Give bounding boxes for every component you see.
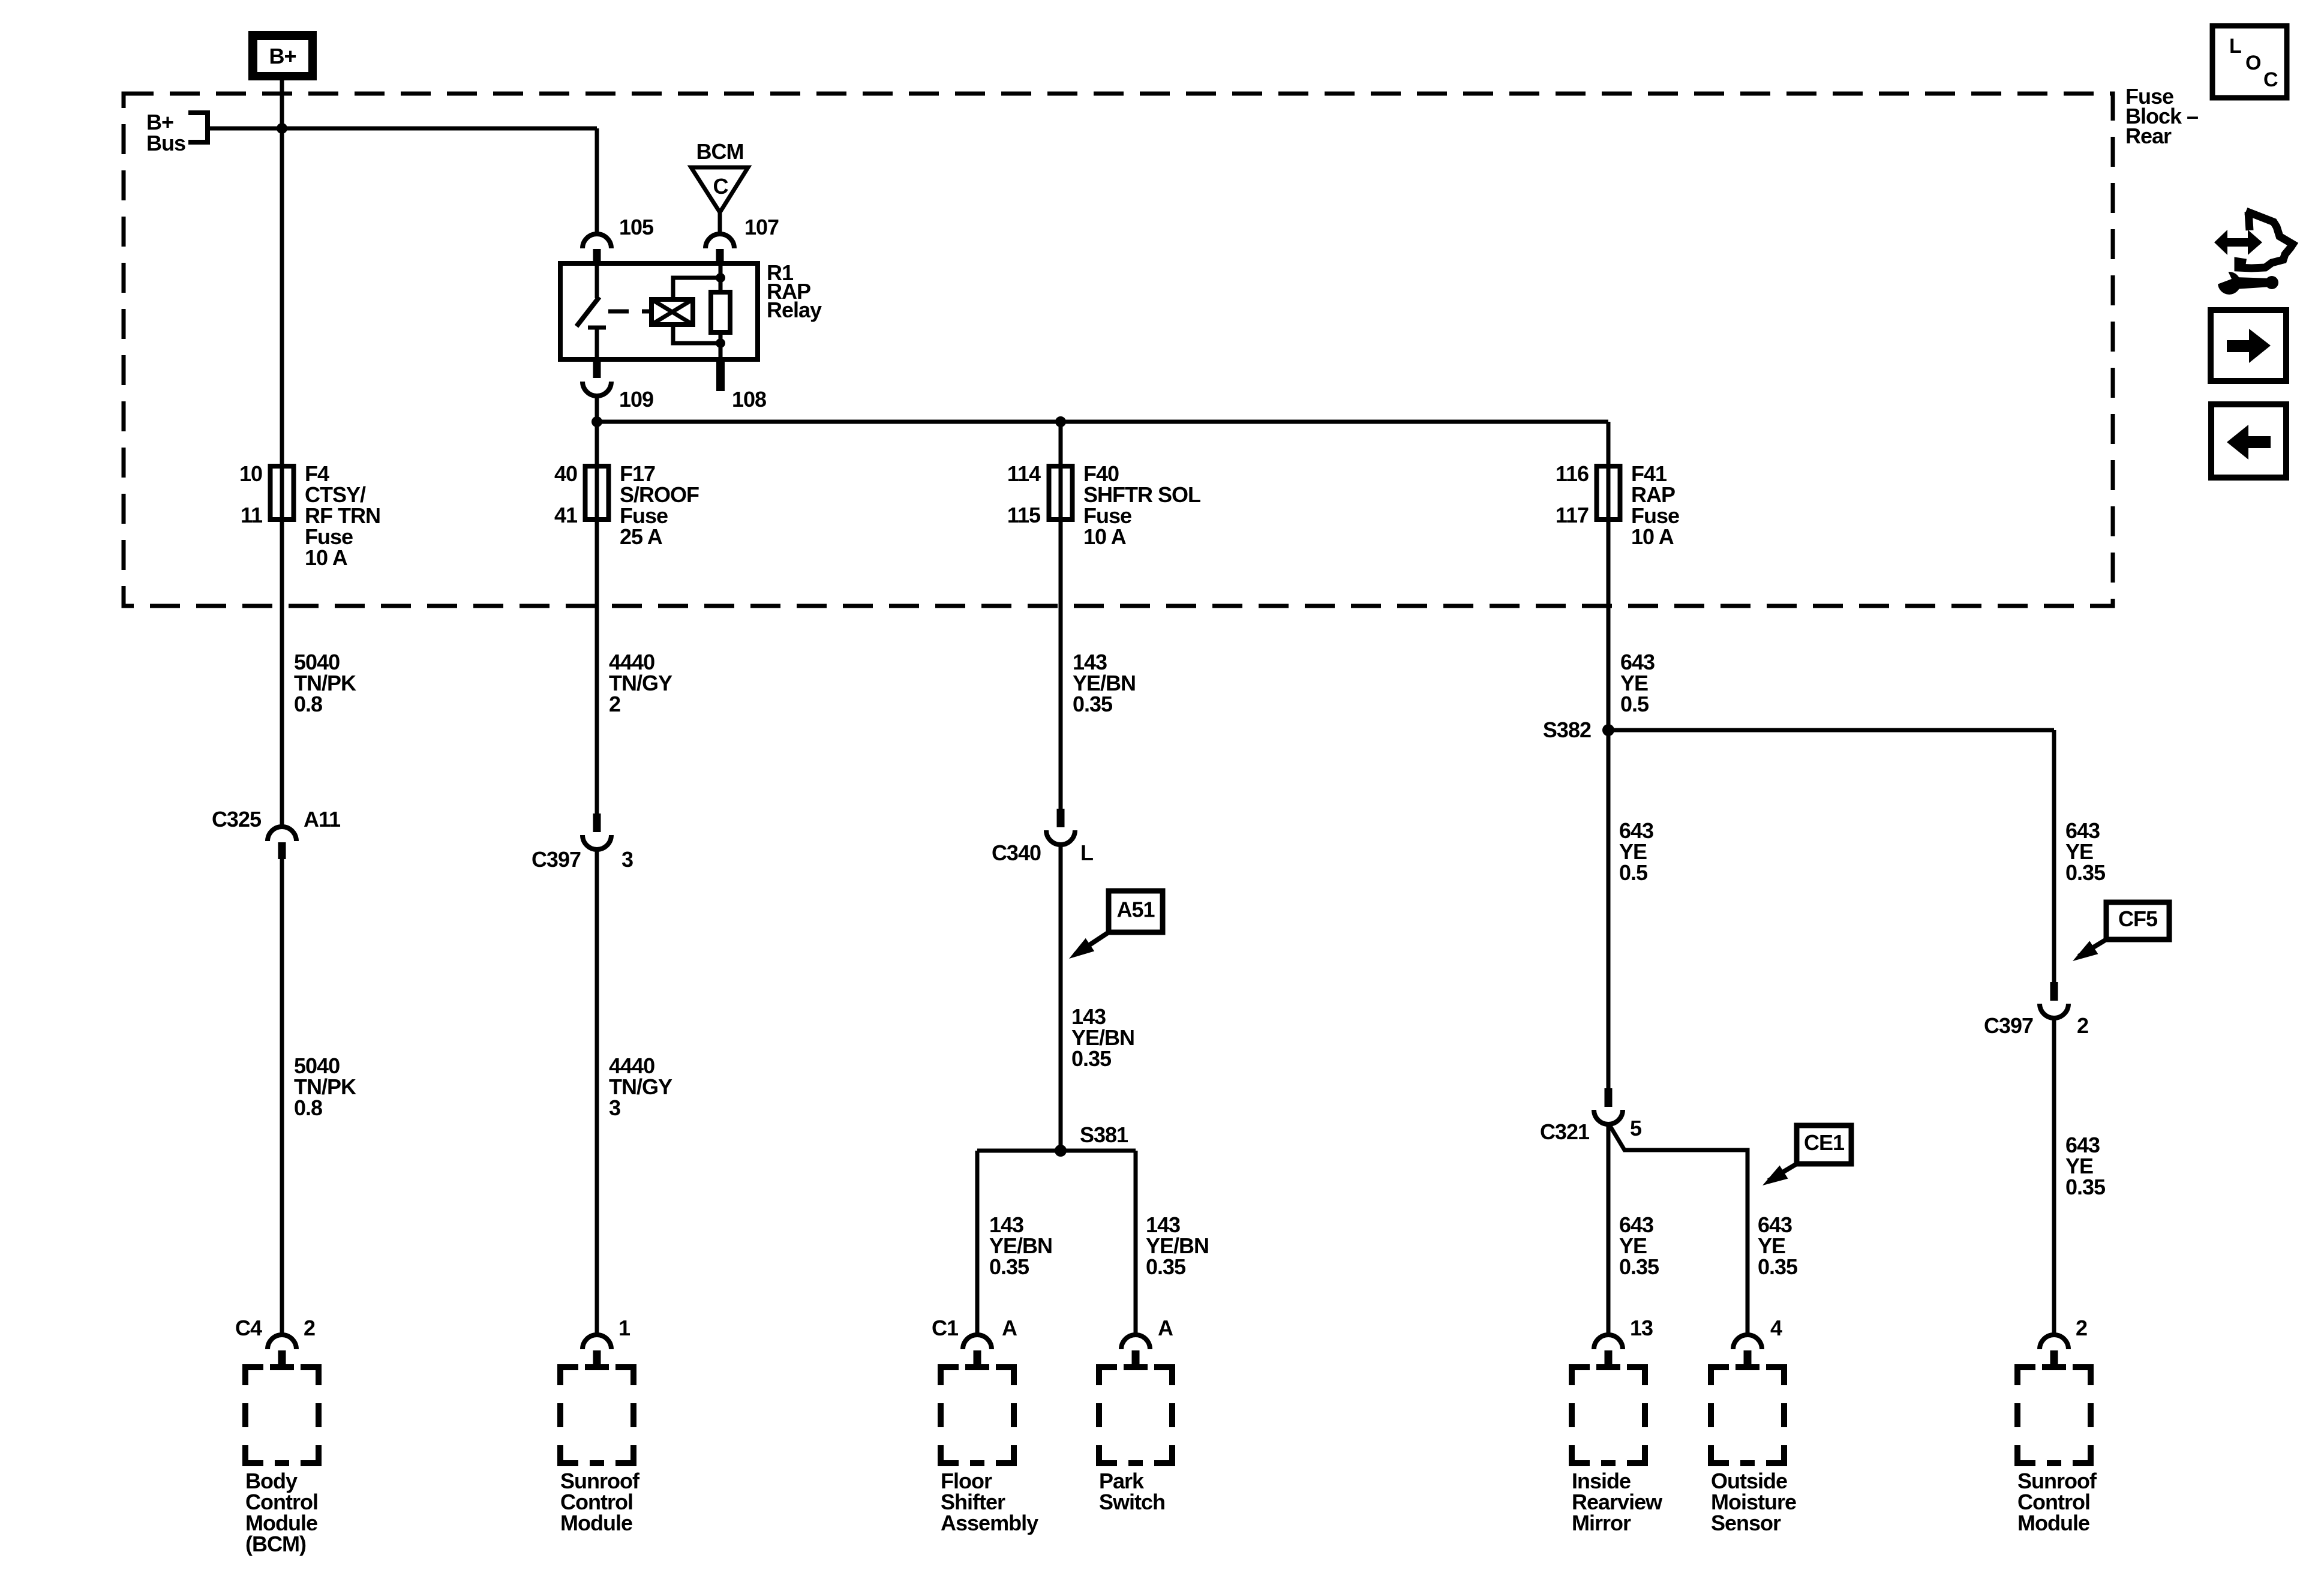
svg-text:C: C <box>713 174 729 199</box>
fuse F41 <box>1556 461 1679 549</box>
wire label circuit 643 upper <box>1620 650 1655 716</box>
relay R1 RAP outline <box>560 263 758 359</box>
connector C321 pin 5 <box>1540 1088 1642 1144</box>
wire label circuit 143 left branch <box>989 1212 1052 1279</box>
outside moisture sensor box <box>1711 1367 1784 1463</box>
wire label circuit 143 middle <box>1071 1004 1134 1071</box>
svg-text:(BCM): (BCM) <box>245 1532 306 1556</box>
svg-text:5: 5 <box>1630 1116 1642 1140</box>
fuse block - rear label <box>2125 84 2198 148</box>
svg-text:C321: C321 <box>1540 1119 1590 1144</box>
svg-text:L: L <box>2229 35 2241 58</box>
wire horizontal distribution run <box>597 420 1608 424</box>
fuse F40 <box>1007 461 1200 549</box>
svg-text:10 A: 10 A <box>305 545 348 570</box>
wire S382 branch down right column <box>2052 730 2056 982</box>
svg-text:S381: S381 <box>1080 1122 1128 1147</box>
wire label circuit 4440 upper <box>609 650 672 716</box>
svg-text:A: A <box>1158 1316 1173 1340</box>
connector C1 pin A <box>932 1316 1017 1370</box>
B+ Bus terminal bracket <box>146 110 208 155</box>
relay coil loop wires <box>673 278 720 299</box>
connector C397 pin 3 <box>532 813 633 872</box>
svg-text:0.35: 0.35 <box>1146 1254 1186 1279</box>
connector pin 109 <box>582 359 653 412</box>
wire C321 to inside rearview mirror <box>1607 1123 1611 1337</box>
svg-text:117: 117 <box>1556 503 1589 527</box>
connector C325 pin A11 <box>212 807 341 859</box>
connector sensor pin 4 <box>1733 1316 1782 1370</box>
wire S381 to floor shifter <box>975 1151 980 1337</box>
svg-text:2: 2 <box>2077 1013 2088 1038</box>
wire label circuit 643 right lower <box>2065 1133 2106 1199</box>
wire run through fuse F41 <box>1607 422 1611 730</box>
connector pin 107 <box>705 215 779 264</box>
svg-text:C397: C397 <box>1984 1013 2033 1038</box>
connector C340 pin L <box>992 809 1093 865</box>
svg-text:4: 4 <box>1770 1316 1782 1340</box>
floor shifter assembly box <box>941 1367 1014 1463</box>
wire B+ vertical (column A) <box>280 80 284 827</box>
body control module label <box>245 1469 318 1556</box>
svg-text:0.35: 0.35 <box>2065 1175 2106 1199</box>
BCM triangle (connector C) <box>691 167 748 212</box>
svg-text:Assembly: Assembly <box>941 1511 1038 1535</box>
forward arrow box <box>2211 310 2286 381</box>
svg-text:C: C <box>2263 68 2278 91</box>
splice S382 <box>1543 718 1614 742</box>
wire label circuit 5040 upper <box>294 650 356 716</box>
svg-text:2: 2 <box>609 692 620 716</box>
svg-text:40: 40 <box>554 461 577 486</box>
svg-text:C340: C340 <box>992 840 1041 865</box>
wire pin 109 to distribution run <box>595 395 599 422</box>
fuse block - rear dashed border <box>124 94 2113 606</box>
wire label circuit 643 right upper <box>2065 818 2106 885</box>
outside moisture sensor label <box>1711 1469 1796 1535</box>
wire label circuit 143 upper <box>1073 650 1136 716</box>
svg-text:11: 11 <box>241 503 263 527</box>
svg-text:116: 116 <box>1556 461 1589 486</box>
svg-text:CF5: CF5 <box>2118 906 2158 931</box>
svg-text:25 A: 25 A <box>620 524 663 549</box>
harness A51 flag <box>1069 891 1163 959</box>
junction coil bottom / pin 108 <box>716 338 725 348</box>
svg-text:105: 105 <box>619 215 654 239</box>
vehicle with wrench icon <box>2213 211 2293 295</box>
relay pin 108 <box>716 359 766 412</box>
svg-text:115: 115 <box>1007 503 1041 527</box>
wire C321 branch to outside moisture sensor <box>1608 1123 1747 1337</box>
wire C325 to BCM C4 <box>280 859 284 1337</box>
svg-text:13: 13 <box>1630 1316 1653 1340</box>
LOC reference box <box>2212 26 2287 98</box>
B+ power feed box <box>248 31 317 80</box>
svg-text:41: 41 <box>554 503 578 527</box>
svg-text:A51: A51 <box>1116 897 1155 922</box>
park switch label <box>1099 1469 1165 1514</box>
svg-text:108: 108 <box>732 387 766 412</box>
svg-text:Switch: Switch <box>1099 1490 1165 1514</box>
svg-text:3: 3 <box>621 847 633 872</box>
wire label circuit 143 right branch <box>1146 1212 1209 1279</box>
relay switch contact <box>577 263 606 359</box>
wire C340 to S381 <box>1059 843 1063 1151</box>
svg-text:10 A: 10 A <box>1083 524 1127 549</box>
svg-text:Relay: Relay <box>767 298 822 322</box>
connector park switch pin A <box>1121 1316 1173 1370</box>
relay resistor <box>711 264 730 359</box>
svg-text:Rear: Rear <box>2125 124 2172 148</box>
svg-text:0.35: 0.35 <box>1619 1254 1659 1279</box>
svg-text:B+: B+ <box>269 44 296 68</box>
junction coil top / pin 107 <box>716 273 725 283</box>
svg-text:C325: C325 <box>212 807 262 831</box>
svg-text:2: 2 <box>304 1316 315 1340</box>
wire S382 branch to right column <box>1608 728 2054 733</box>
svg-text:CE1: CE1 <box>1804 1130 1845 1155</box>
wire B+ bus horizontal <box>208 127 597 131</box>
svg-text:114: 114 <box>1007 461 1041 486</box>
svg-text:0.35: 0.35 <box>2065 860 2106 885</box>
relay R1 label <box>767 260 822 322</box>
wire C397-2 to sunroof control module <box>2052 1017 2056 1337</box>
connector mirror pin 13 <box>1594 1316 1653 1370</box>
relay coil <box>651 299 693 325</box>
park switch box <box>1099 1367 1172 1463</box>
junction at pin 109 column <box>591 416 602 427</box>
wire S381 branch tee <box>977 1149 1136 1153</box>
wire bus to relay pin 105 <box>595 128 599 235</box>
fuse F17 <box>554 461 699 549</box>
svg-text:C1: C1 <box>932 1316 959 1340</box>
wire label circuit 5040 lower <box>294 1053 356 1120</box>
svg-text:10 A: 10 A <box>1631 524 1674 549</box>
junction bus/column A <box>277 123 287 134</box>
svg-text:BCM: BCM <box>696 139 744 164</box>
svg-text:0.35: 0.35 <box>1758 1254 1798 1279</box>
svg-text:C397: C397 <box>532 847 581 872</box>
sunroof control module box (left) <box>560 1367 633 1463</box>
svg-text:107: 107 <box>744 215 779 239</box>
wire label circuit 643 mirror branch <box>1619 1212 1659 1279</box>
svg-text:S382: S382 <box>1543 718 1591 742</box>
svg-text:C4: C4 <box>235 1316 262 1340</box>
svg-text:0.35: 0.35 <box>1073 692 1113 716</box>
svg-text:O: O <box>2245 52 2261 74</box>
wire label circuit 4440 lower <box>609 1053 672 1120</box>
svg-text:Bus: Bus <box>146 131 185 155</box>
wire run through fuse F17 <box>595 422 599 813</box>
svg-text:A: A <box>1002 1316 1017 1340</box>
connector C4 pin 2 <box>235 1316 315 1370</box>
svg-text:109: 109 <box>619 387 653 412</box>
connector pin 105 <box>582 215 654 264</box>
splice S381 <box>1055 1122 1128 1157</box>
floor shifter assembly label <box>941 1469 1038 1535</box>
connector sunroof pin 1 <box>582 1316 630 1370</box>
wire BCM to pin 107 <box>718 212 722 235</box>
svg-text:1: 1 <box>618 1316 630 1340</box>
fuse F4 <box>239 461 380 570</box>
svg-text:0.5: 0.5 <box>1619 860 1648 885</box>
inside rearview mirror label <box>1572 1469 1663 1535</box>
svg-text:L: L <box>1080 840 1093 865</box>
junction at fuse F40 column <box>1055 416 1066 427</box>
inside rearview mirror box <box>1572 1367 1645 1463</box>
sunroof control module box (right) <box>2017 1367 2091 1463</box>
back arrow box <box>2211 404 2286 478</box>
body control module box <box>245 1367 319 1463</box>
wire S381 to park switch <box>1134 1151 1138 1337</box>
svg-text:0.35: 0.35 <box>1071 1046 1112 1071</box>
svg-text:2: 2 <box>2076 1316 2087 1340</box>
svg-text:0.8: 0.8 <box>294 692 322 716</box>
relay actuation dashed link <box>608 310 651 314</box>
svg-text:Mirror: Mirror <box>1572 1511 1631 1535</box>
svg-text:A11: A11 <box>304 807 341 831</box>
svg-text:0.35: 0.35 <box>989 1254 1029 1279</box>
svg-text:10: 10 <box>239 461 262 486</box>
connector C397 pin 2 <box>1984 982 2088 1038</box>
svg-text:0.8: 0.8 <box>294 1095 322 1120</box>
sunroof control module label (left) <box>560 1469 640 1535</box>
wire run through fuse F40 <box>1059 422 1063 809</box>
harness CF5 flag <box>2073 902 2169 961</box>
wire label circuit 643 middle <box>1619 818 1653 885</box>
svg-text:3: 3 <box>609 1095 620 1120</box>
svg-text:Module: Module <box>560 1511 632 1535</box>
svg-text:0.5: 0.5 <box>1620 692 1649 716</box>
wire S382 to C321 <box>1607 730 1611 1088</box>
svg-text:Sensor: Sensor <box>1711 1511 1781 1535</box>
sunroof control module label (right) <box>2017 1469 2097 1535</box>
wire label circuit 643 sensor branch <box>1758 1212 1798 1279</box>
harness CE1 flag <box>1762 1125 1851 1185</box>
connector sunroof pin 2 <box>2040 1316 2087 1370</box>
svg-text:Module: Module <box>2017 1511 2089 1535</box>
wire C397-3 to sunroof control module <box>595 848 599 1337</box>
